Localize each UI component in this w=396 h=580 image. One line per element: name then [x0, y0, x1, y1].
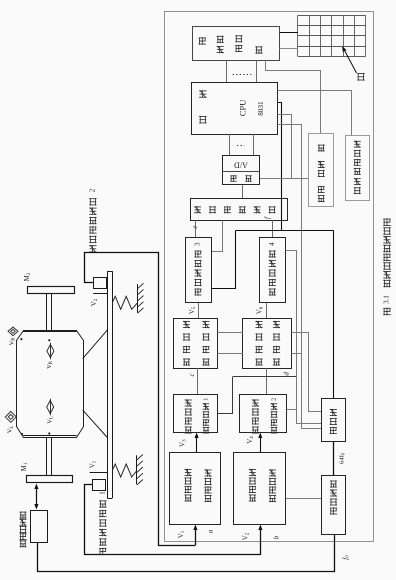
svg-text:b: b [273, 535, 281, 539]
svg-text:4: 4 [268, 242, 276, 246]
svg-text:a: a [206, 529, 214, 533]
svg-text:A/D: A/D [234, 160, 248, 169]
svg-text:8031: 8031 [257, 101, 265, 116]
svg-text:CPU: CPU [238, 99, 248, 117]
svg-text:2: 2 [270, 398, 277, 401]
svg-text:d: d [283, 372, 291, 376]
svg-text:3.1: 3.1 [383, 295, 391, 304]
svg-text:3: 3 [194, 242, 202, 246]
svg-text:e: e [191, 226, 199, 229]
svg-text:1: 1 [202, 398, 209, 401]
svg-text:2: 2 [89, 188, 97, 192]
svg-text:1: 1 [98, 491, 106, 495]
